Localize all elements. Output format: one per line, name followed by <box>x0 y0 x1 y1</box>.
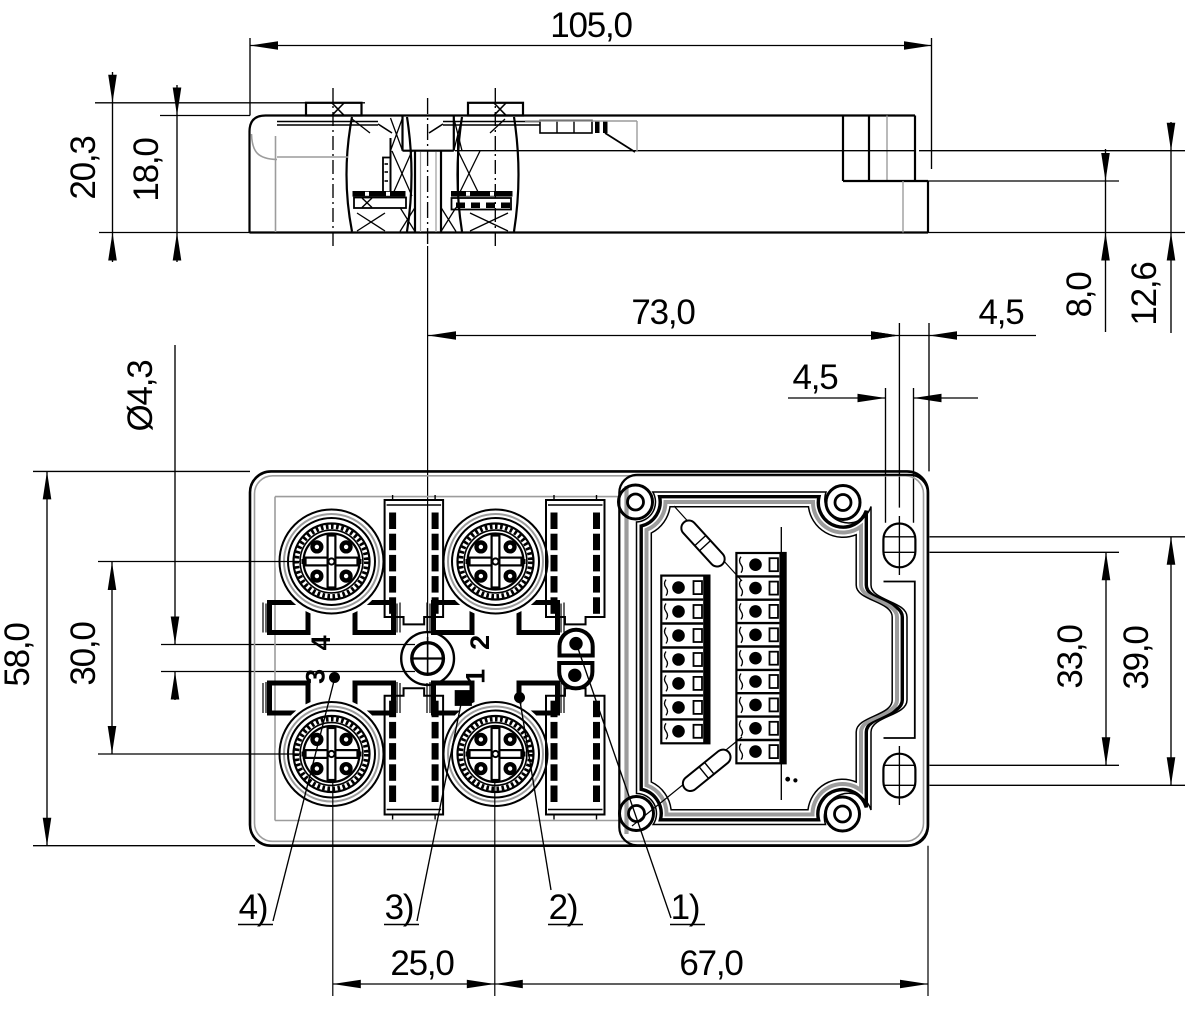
callout 4 leader <box>273 679 335 921</box>
connector insert detail rect (side view) <box>383 158 391 193</box>
M12 connector port 1 body rings <box>440 698 552 810</box>
central fixing screw <box>401 632 454 685</box>
dimension 30,0 <box>111 562 113 754</box>
barrel 2 section arcs <box>458 117 463 232</box>
barrel 1 section arcs <box>347 117 353 232</box>
dimension 25,0 <box>333 983 495 985</box>
svg-text:4,5: 4,5 <box>978 293 1023 332</box>
connector cap 1 (side view) <box>306 103 362 116</box>
svg-text:4,5: 4,5 <box>792 358 837 397</box>
dimension 4,5 upper right <box>899 335 1036 337</box>
M12 connector port 4 keyway and pins <box>306 558 358 566</box>
M12 connector port 4 tabs <box>270 603 309 633</box>
svg-text:33,0: 33,0 <box>1051 625 1090 689</box>
svg-text:3): 3) <box>385 888 414 927</box>
jumper link lower <box>632 737 742 826</box>
svg-text:4: 4 <box>306 635 336 650</box>
oval mounting hole bottom <box>883 754 915 798</box>
LED indicator pair <box>560 630 593 656</box>
svg-text:2: 2 <box>465 636 495 650</box>
dimension 105,0 <box>250 45 932 47</box>
svg-text:1): 1) <box>671 888 700 927</box>
terminal block 7-pole <box>661 576 709 744</box>
dimension 39,0 <box>1170 537 1172 786</box>
cover screw bottom-left <box>620 797 654 831</box>
front view body outline <box>250 471 928 845</box>
oval mounting hole top <box>883 524 915 568</box>
M12 connector port 3 body rings <box>276 698 388 810</box>
cover screw top-left <box>619 485 653 519</box>
cover plate seam <box>619 475 928 846</box>
screw channel (side view) <box>414 151 416 233</box>
svg-text:8,0: 8,0 <box>1060 272 1099 318</box>
hatch diagonals (side view) <box>391 118 403 151</box>
front view chamfer line <box>255 476 924 842</box>
svg-text:3: 3 <box>301 669 331 684</box>
pin1 marker square connector port1 <box>455 690 472 706</box>
svg-text:18,0: 18,0 <box>127 138 166 202</box>
svg-text:58,0: 58,0 <box>0 623 37 687</box>
pcb terminal row near cover (side view) <box>540 121 592 134</box>
svg-text:30,0: 30,0 <box>64 622 103 686</box>
label slot column 1 lower <box>385 688 444 814</box>
callout 1 leader <box>577 646 671 919</box>
barrel inner walls <box>390 138 392 196</box>
connector cap 2 (side view) <box>468 103 523 116</box>
side view right flange block <box>842 116 844 182</box>
svg-text:20,3: 20,3 <box>64 136 103 199</box>
inner floor line <box>455 150 915 152</box>
svg-text:25,0: 25,0 <box>390 944 454 983</box>
svg-text:2): 2) <box>549 888 578 927</box>
M12 connector port 3 keyway and pins <box>306 750 358 758</box>
terminal strip left (side view) <box>353 191 406 197</box>
svg-text:4): 4) <box>239 888 268 927</box>
label slot column 2 upper <box>546 500 605 624</box>
terminal block centerline <box>780 527 782 800</box>
svg-text:39,0: 39,0 <box>1117 626 1156 690</box>
dimension 20,3 <box>112 72 114 262</box>
cover screw top-right <box>826 486 860 520</box>
callout 2 leader <box>520 698 552 890</box>
M12 connector port 3 tabs <box>270 683 309 713</box>
M12 connector port 2 body rings <box>440 506 552 618</box>
dimension 4,5 lower <box>788 397 886 399</box>
cover screw bottom-right <box>826 797 860 831</box>
gasket groove outer edge <box>637 492 908 825</box>
dimension 67,0 <box>495 983 928 985</box>
centerline connector column A <box>332 88 334 246</box>
dimension 18,0 <box>176 85 178 262</box>
adjustment dots <box>785 777 790 782</box>
dimension 73,0 <box>428 335 899 337</box>
svg-text:67,0: 67,0 <box>679 944 743 983</box>
M12 connector port 2 keyway and pins <box>470 558 522 566</box>
dimension 58,0 <box>46 471 48 845</box>
gasket groove gray band <box>647 502 898 815</box>
front view raised block edges <box>274 497 276 821</box>
gasket groove outer black band <box>641 497 902 820</box>
cover right pocket notch <box>884 582 915 739</box>
M12 connector port 2 tabs <box>434 603 473 633</box>
terminal strip right (side view) <box>451 191 513 197</box>
dimension 12,6 <box>1170 122 1172 333</box>
M12 connector port 1 keyway and pins <box>470 750 522 758</box>
hidden gray lines (side view) <box>252 134 278 160</box>
gasket groove inner edge <box>651 507 892 810</box>
svg-text:12,6: 12,6 <box>1125 262 1164 325</box>
svg-text:105,0: 105,0 <box>550 6 632 45</box>
label slot column 1 upper <box>385 500 444 624</box>
label slot column 2 lower <box>546 688 605 814</box>
centerline central screw <box>427 98 429 246</box>
centerline connector column B <box>494 88 496 246</box>
M12 connector port 4 body rings <box>276 506 388 618</box>
jumper link upper <box>674 506 742 581</box>
callout 3 leader <box>417 704 461 921</box>
side section view outline <box>250 116 916 233</box>
svg-text:1: 1 <box>461 669 491 684</box>
terminal block 9-pole <box>736 553 785 763</box>
screw recess (side view) <box>401 116 403 151</box>
dimension 8,0 <box>1105 149 1107 332</box>
dimension 33,0 <box>1105 552 1107 765</box>
svg-text:Ø4,3: Ø4,3 <box>121 360 160 431</box>
M12 connector port 1 tabs <box>434 683 473 713</box>
dimension diameter 4,3 leader <box>174 345 176 645</box>
svg-text:73,0: 73,0 <box>631 293 695 332</box>
cap washer collars <box>277 121 378 123</box>
